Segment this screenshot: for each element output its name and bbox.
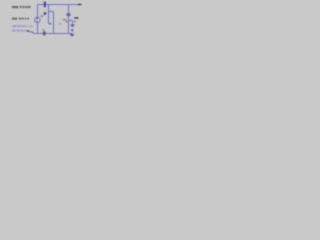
wire branch C [68, 5, 70, 34]
label above C2 [42, 29, 44, 30]
capacitor C2 on bottom rail [44, 31, 45, 35]
wire top rail [37, 4, 77, 6]
wire jog from left [29, 32, 33, 34]
wire left vertical [37, 5, 39, 18]
text row2 [12, 18, 29, 20]
ground [70, 34, 74, 35]
label blob near ground [71, 29, 73, 31]
blue text row B [12, 30, 26, 32]
node dot branch A [50, 23, 51, 24]
text row1 [12, 6, 31, 8]
value label near source [40, 15, 43, 17]
battery B1 marks [71, 25, 75, 26]
capacitor C1 [44, 2, 45, 8]
background [0, 0, 95, 40]
wire bottom rail [33, 33, 73, 35]
darker tail of blue row B [27, 30, 30, 31]
capacitor C3 [66, 14, 70, 16]
battery plus minus labels [66, 21, 68, 22]
wire sub branch [69, 21, 73, 25]
blue text row A [12, 25, 33, 27]
wire branch B [53, 12, 55, 34]
wire cross [49, 11, 54, 13]
wire below source [37, 23, 39, 34]
label C value right [74, 17, 78, 19]
component label mid [44, 12, 45, 15]
faint label lower [58, 23, 61, 25]
label near branch C [63, 19, 66, 21]
source V1 polarity marks [36, 18, 38, 22]
node out label [78, 4, 81, 6]
wire branch A [49, 5, 51, 24]
source V1 [35, 17, 41, 23]
